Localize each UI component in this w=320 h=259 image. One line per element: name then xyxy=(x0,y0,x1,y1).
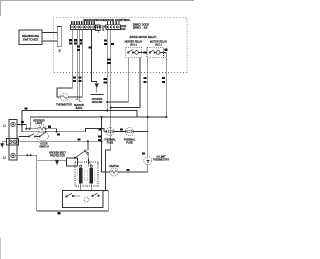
svg-text:BARS: BARS xyxy=(76,107,83,110)
wire L1 out xyxy=(17,111,26,125)
svg-text:BAT: BAT xyxy=(121,28,126,31)
svg-text:FUSE: FUSE xyxy=(107,141,114,144)
wire label BU-14 motor feed xyxy=(107,58,110,60)
wire label BK relay 2 lead xyxy=(143,77,146,79)
wire bus B xyxy=(30,116,166,118)
wire label RD relay 2 contact lead xyxy=(162,77,165,79)
connector P3 xyxy=(57,27,61,47)
wire label GY-24 xyxy=(74,39,77,41)
svg-text:FUSE: FUSE xyxy=(126,141,133,144)
wire label PK-23 xyxy=(79,39,82,41)
winding terminals xyxy=(80,165,82,167)
relay K2 contacts xyxy=(149,49,167,55)
wire label RD-22 sensor lead xyxy=(73,77,76,79)
svg-text:L2: L2 xyxy=(3,157,6,160)
wire P2 pin to relay1 contact xyxy=(111,30,140,108)
start winding xyxy=(90,168,93,184)
motor winding area dashed box xyxy=(88,154,91,165)
relay K2 box xyxy=(147,47,164,58)
neutral ground xyxy=(2,142,6,144)
wire label BK ground lead xyxy=(89,47,92,49)
svg-text:PROTECTOR: PROTECTOR xyxy=(50,155,65,158)
svg-text:THERMISTOR: THERMISTOR xyxy=(56,104,72,107)
legend boxes door sw xyxy=(133,23,140,26)
door switch row xyxy=(22,125,39,132)
page border top edge xyxy=(0,0,194,2)
wire membrane to connector xyxy=(42,33,57,42)
page border left edge xyxy=(0,0,2,16)
interior light lamp xyxy=(26,128,38,130)
row D L2 wire xyxy=(17,155,37,211)
wire relay2 left to fuse corner xyxy=(147,58,149,132)
junction dots xyxy=(107,110,108,111)
microprocessor control dashed box xyxy=(53,17,187,72)
power cord column xyxy=(9,120,17,161)
wire P2 pin to relay1 coil xyxy=(107,30,128,111)
winding labels xyxy=(78,170,95,181)
wire relay2 right riser xyxy=(165,53,167,118)
svg-text:THERMOSTAT: THERMOSTAT xyxy=(153,159,170,162)
wire label RD xyxy=(111,43,114,45)
wire label BU lamp lead xyxy=(48,126,51,128)
wire label RD heater lead xyxy=(126,169,129,171)
svg-text:SWITCH: SWITCH xyxy=(39,145,49,148)
wire label RD fuse row xyxy=(98,128,101,130)
pin labels P2 xyxy=(107,21,120,25)
heater feed xyxy=(101,117,103,172)
wire label BK L1 lead xyxy=(21,121,24,123)
main winding xyxy=(79,168,82,184)
hi-limit thermostat xyxy=(147,132,149,157)
terminal block xyxy=(7,139,19,146)
svg-text:J2: J2 xyxy=(58,50,61,53)
pin labels P1 xyxy=(71,21,95,25)
belt switch arm xyxy=(75,152,84,158)
wire sensor bar 1 xyxy=(76,30,79,100)
wire label BU door row xyxy=(57,133,60,135)
wire fuse row xyxy=(46,128,106,131)
wire label WH motor rail xyxy=(57,212,60,214)
wire label WH-BU xyxy=(104,40,107,42)
wire label BU-26 xyxy=(69,39,72,41)
wire sensor bar 2 xyxy=(78,30,81,102)
wire row C to belt contact xyxy=(87,141,89,150)
chassis ground symbol xyxy=(95,84,98,88)
wire label RD hi-limit lead xyxy=(142,152,145,154)
svg-text:SWITCHES: SWITCHES xyxy=(23,38,39,42)
row B to door switch xyxy=(19,136,29,138)
door switch ellipse xyxy=(37,132,49,141)
svg-text:(N.O.): (N.O.) xyxy=(130,44,137,47)
svg-text:(DRIVE MOTOR RELAY): (DRIVE MOTOR RELAY) xyxy=(130,36,157,39)
relay K1 contacts xyxy=(128,50,147,55)
wire chassis ground from P1 xyxy=(92,30,97,93)
connector block P1 xyxy=(71,25,96,30)
wire label VT-22 xyxy=(77,46,80,48)
wire label BK bus A xyxy=(24,107,27,109)
thermal fuse row xyxy=(106,128,114,136)
wire thermistor return xyxy=(69,30,83,98)
wire label BK-26 heater feed xyxy=(98,135,101,137)
svg-text:HEATER: HEATER xyxy=(109,165,119,168)
svg-text:L1: L1 xyxy=(3,125,6,128)
wire label WH-12 relay coil lead xyxy=(104,78,107,80)
thermistor circle xyxy=(61,93,69,101)
svg-text:SW: SW xyxy=(144,27,149,30)
svg-text:GROUND: GROUND xyxy=(92,101,103,104)
wire P2 to motor xyxy=(105,108,110,191)
svg-text:(N.O.): (N.O.) xyxy=(155,44,162,47)
connector block P2 xyxy=(106,25,121,30)
wire label RD between fuses xyxy=(120,128,123,130)
svg-text:J2: J2 xyxy=(102,29,105,32)
wire block1 pin1 to thermistor xyxy=(57,30,72,98)
wire label WH row C xyxy=(77,139,80,141)
heater xyxy=(118,171,148,173)
membrane switches box xyxy=(19,30,42,45)
wire label YL-21 sensor lead xyxy=(79,77,82,79)
connector COM box xyxy=(96,25,101,31)
motor bottom rail xyxy=(37,190,109,211)
motor box xyxy=(63,191,104,208)
wire lamp to door row xyxy=(46,129,56,132)
wire L1 bus A xyxy=(22,111,137,118)
relay K1 box xyxy=(126,47,142,58)
wire to winding xyxy=(87,154,90,167)
wire L1 jog to lamp row xyxy=(26,117,30,129)
belt protector box xyxy=(67,158,78,166)
row C neutral bus xyxy=(19,140,102,142)
